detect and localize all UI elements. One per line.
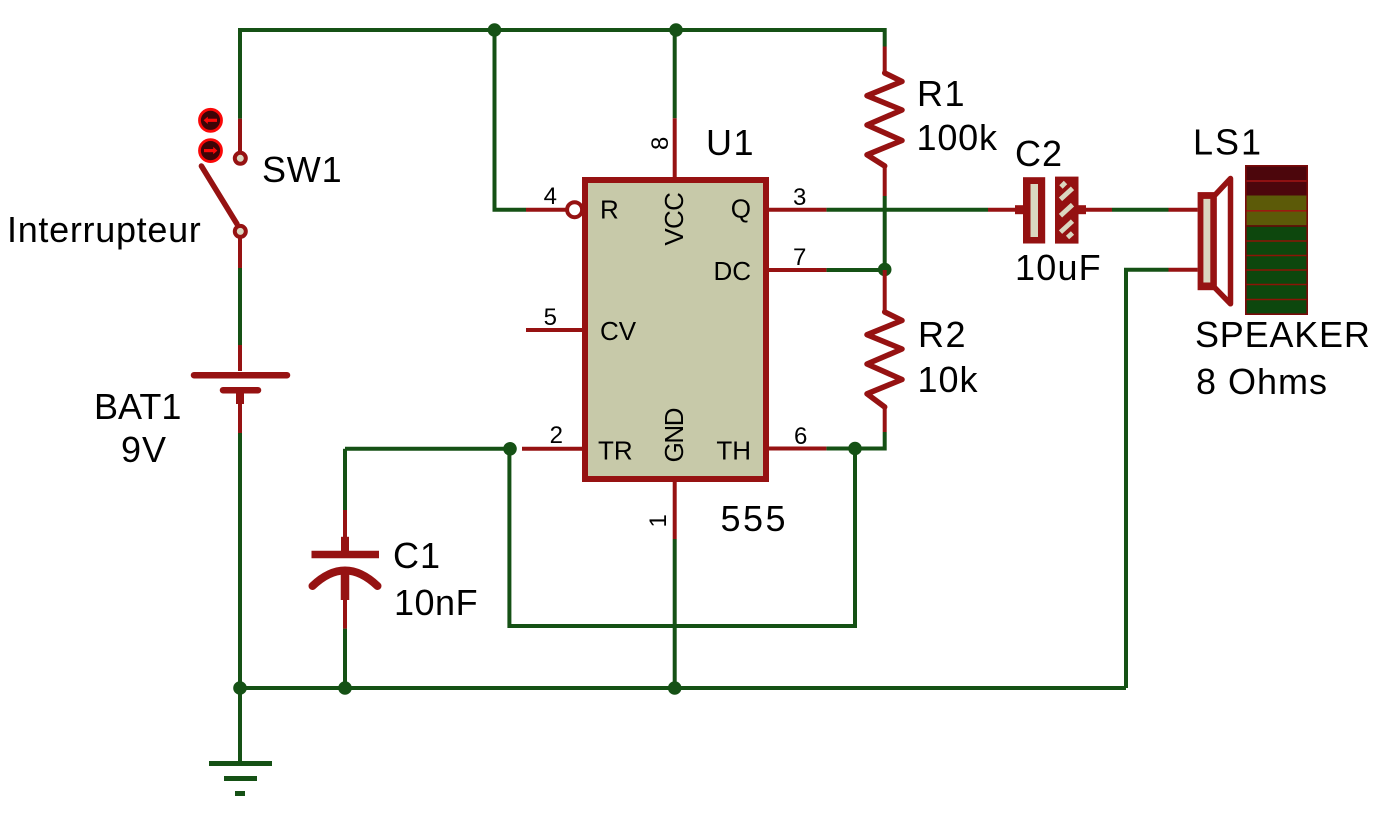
junction node DC / R1-R2	[878, 263, 892, 277]
wire TR-TH link	[509, 449, 855, 627]
junction node top rail x494	[488, 23, 502, 37]
pin 7 lead	[769, 268, 826, 272]
pin 4 lead	[526, 208, 566, 212]
svg-text:GND: GND	[659, 408, 689, 462]
svg-text:TH: TH	[716, 436, 751, 466]
C1 bottom stub	[341, 567, 350, 600]
switch SW1	[200, 109, 246, 268]
C2 positive plate	[1023, 177, 1045, 243]
pin 2 lead	[522, 447, 582, 451]
svg-text:4: 4	[544, 183, 557, 210]
switch top terminal	[235, 153, 246, 164]
C1 curved plate	[313, 571, 378, 587]
junction node battery ground	[233, 681, 247, 695]
svg-text:10uF: 10uF	[1015, 247, 1102, 288]
svg-text:5: 5	[544, 304, 557, 331]
svg-text:R1: R1	[917, 73, 966, 114]
svg-text:BAT1: BAT1	[94, 386, 181, 427]
pin 1 lead	[673, 482, 677, 539]
C1 top lead stub	[343, 510, 347, 551]
svg-text:C1: C1	[393, 535, 441, 576]
LS1 top lead	[1169, 208, 1198, 212]
wire TH net pin6 to R2 bottom	[826, 432, 884, 449]
switch lever	[201, 166, 237, 224]
svg-text:8 Ohms: 8 Ohms	[1196, 361, 1328, 402]
wire Q net pin3 to C2	[826, 208, 988, 212]
wire C1 top lead	[343, 449, 347, 510]
R1 zigzag	[867, 73, 902, 166]
svg-text:10nF: 10nF	[394, 582, 478, 623]
battery bottom stub	[236, 392, 244, 404]
pin 8 lead	[673, 118, 677, 177]
R1 top lead	[883, 47, 887, 74]
LS1 bottom lead	[1169, 268, 1198, 272]
switch actuator button down	[200, 140, 222, 162]
pin 4 inversion bubble	[567, 202, 582, 217]
resistor R2	[867, 270, 902, 432]
C2 left lead	[988, 208, 1023, 212]
svg-text:1: 1	[645, 514, 672, 527]
wire C1 bottom to rail	[343, 629, 347, 688]
junction node C1 ground	[338, 681, 352, 695]
svg-text:555: 555	[721, 498, 789, 539]
speaker LS1	[1169, 165, 1309, 315]
svg-text:Q: Q	[731, 194, 751, 224]
R2 top lead	[883, 270, 887, 312]
wire top rail VCC	[240, 30, 885, 119]
svg-text:SW1: SW1	[262, 149, 342, 190]
svg-text:9V: 9V	[121, 429, 167, 470]
wire TR net to C1	[345, 447, 509, 451]
LS1 magnet body	[1198, 192, 1215, 290]
junction node TH branch	[848, 442, 862, 456]
junction node IC ground	[668, 681, 682, 695]
C2 negative plate hatched	[1055, 177, 1079, 244]
junction node top rail x676	[669, 23, 683, 37]
pin 6 lead	[769, 447, 826, 451]
wire GND pin1 to rail	[673, 539, 677, 688]
svg-text:R2: R2	[918, 314, 967, 355]
LS1 cone	[1214, 179, 1230, 304]
capacitor C1	[312, 510, 380, 629]
C1 top plate	[312, 551, 380, 559]
svg-text:6: 6	[794, 423, 807, 450]
C2 right lead	[1079, 208, 1113, 212]
junction node TR	[503, 442, 517, 456]
battery BAT1	[194, 345, 287, 433]
battery top lead	[238, 345, 242, 371]
svg-text:TR: TR	[598, 436, 633, 466]
svg-text:LS1: LS1	[1193, 122, 1263, 163]
wire ground drop	[238, 688, 242, 762]
svg-text:VCC: VCC	[659, 193, 689, 246]
svg-text:100k: 100k	[917, 117, 998, 158]
ground	[209, 764, 272, 794]
pin 5 lead	[526, 328, 582, 332]
C1 bottom lead	[343, 600, 347, 629]
op IC body U1 555	[585, 180, 766, 479]
switch top pin lead	[238, 119, 242, 152]
pin 3 lead	[769, 208, 826, 212]
svg-text:8: 8	[647, 137, 674, 150]
wire bottom ground rail	[240, 686, 1126, 690]
wire speaker return to rail	[1126, 270, 1169, 688]
svg-text:C2: C2	[1015, 133, 1063, 174]
svg-text:3: 3	[793, 184, 806, 211]
R2 zigzag	[867, 312, 902, 407]
switch bottom terminal	[235, 226, 246, 237]
battery short plate	[223, 387, 258, 394]
capacitor C2	[988, 177, 1112, 244]
svg-text:7: 7	[793, 244, 806, 271]
svg-text:SPEAKER: SPEAKER	[1195, 314, 1371, 355]
resistor R1	[867, 47, 902, 197]
svg-text:CV: CV	[600, 316, 637, 346]
wire R1 bottom to DC node	[883, 196, 887, 270]
R2 bottom lead	[883, 407, 887, 432]
svg-text:Interrupteur: Interrupteur	[7, 209, 202, 250]
svg-text:DC: DC	[713, 256, 751, 286]
svg-text:2: 2	[550, 422, 563, 449]
switch bottom pin lead	[238, 238, 242, 268]
switch actuator button up	[200, 109, 222, 131]
LS1 photo box	[1245, 165, 1308, 315]
wire switch to battery	[238, 268, 242, 345]
wire pin8 drop from rail	[673, 30, 677, 118]
R1 bottom lead	[883, 166, 887, 196]
svg-text:R: R	[600, 194, 619, 224]
wire pin4 drop from rail	[495, 30, 527, 210]
battery bottom lead	[238, 404, 242, 433]
svg-text:U1: U1	[706, 122, 755, 163]
wire battery to bottom rail	[238, 433, 242, 688]
wire C2 to speaker	[1112, 208, 1169, 212]
battery long plate	[194, 372, 287, 379]
svg-text:10k: 10k	[918, 359, 979, 400]
wire DC net pin7	[826, 268, 884, 272]
